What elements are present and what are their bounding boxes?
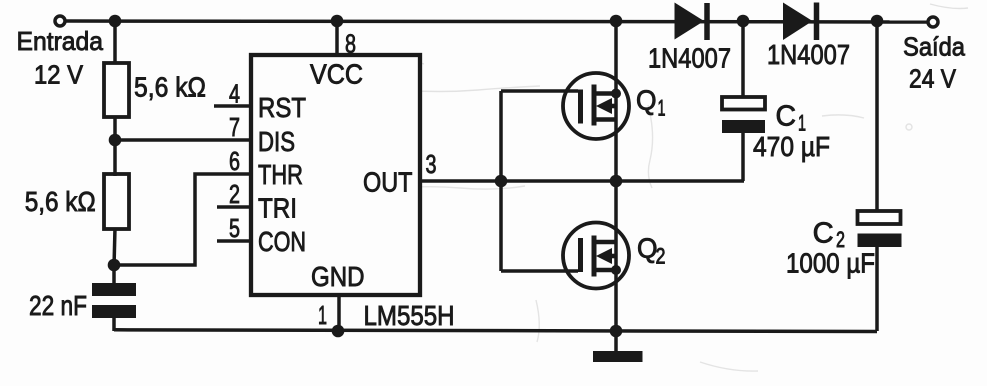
wire junction to pin 7 DIS <box>115 138 251 142</box>
junction between diodes / C1 <box>737 15 750 28</box>
pin 1 stub <box>337 295 341 332</box>
svg-text:24 V: 24 V <box>909 64 957 94</box>
svg-text:12 V: 12 V <box>34 59 84 89</box>
wire top rail <box>67 21 927 22</box>
svg-text:RST: RST <box>258 92 306 123</box>
svg-text:Q: Q <box>637 233 658 264</box>
svg-text:5,6 kΩ: 5,6 kΩ <box>25 186 96 217</box>
junction OUT gate tee <box>495 175 508 188</box>
svg-text:1: 1 <box>658 96 666 121</box>
pin 5 CON stub <box>217 239 251 243</box>
svg-text:1N4007: 1N4007 <box>767 39 850 70</box>
svg-text:2: 2 <box>229 179 240 209</box>
ground <box>593 351 643 362</box>
svg-text:Saída: Saída <box>903 31 965 61</box>
junction R1/R2/pin7 <box>109 134 122 147</box>
svg-text:VCC: VCC <box>310 59 363 90</box>
wire gate bus vertical <box>499 91 503 271</box>
junction pin 8 on top rail <box>331 15 344 28</box>
junction R2/C3/pin6 <box>108 259 121 272</box>
svg-text:7: 7 <box>229 112 240 142</box>
junction at top of R1 <box>109 15 122 28</box>
wire junction to C1 <box>741 21 745 98</box>
junction bottom rail / ground <box>610 325 623 338</box>
diode D2 1N4007 <box>767 3 850 70</box>
svg-text:1N4007: 1N4007 <box>648 42 731 73</box>
wire R1 bottom to junction <box>113 116 117 142</box>
svg-text:GND: GND <box>311 261 365 292</box>
svg-text:DIS: DIS <box>258 126 295 157</box>
svg-text:LM555H: LM555H <box>364 300 455 331</box>
junction top rail / Q1 drain <box>610 15 623 28</box>
svg-text:6: 6 <box>229 146 240 176</box>
svg-text:1: 1 <box>318 300 327 330</box>
svg-text:Q: Q <box>636 85 657 116</box>
capacitor C1 470 uF <box>722 97 830 181</box>
pin 8 stub <box>335 21 339 55</box>
svg-text:4: 4 <box>229 79 240 109</box>
svg-text:22 nF: 22 nF <box>29 290 87 321</box>
op-amp U1 LM555H body <box>251 55 420 295</box>
svg-text:Entrada: Entrada <box>17 26 104 56</box>
wire R2 bottom to junction <box>114 228 115 267</box>
svg-text:5: 5 <box>229 213 240 243</box>
node output label Saida 24 V <box>903 31 965 93</box>
wire MOSFET drain-source vertical <box>614 21 618 353</box>
svg-text:TRI: TRI <box>258 193 297 224</box>
wire Q1 gate lead <box>501 89 578 93</box>
pin 2 TRI stub <box>217 205 251 209</box>
svg-text:8: 8 <box>345 29 356 59</box>
junction mid rail Q1/Q2/OUT <box>610 175 623 188</box>
pin 4 RST stub <box>214 104 251 108</box>
wire junction to pin 6 THR jog <box>114 174 251 265</box>
transistor Q2 <box>563 223 666 289</box>
node input label Entrada 12 V <box>17 26 104 90</box>
svg-text:470 µF: 470 µF <box>753 131 830 162</box>
svg-text:OUT: OUT <box>363 167 413 198</box>
junction pin 1 on bottom rail <box>332 325 345 338</box>
transistor Q1 <box>563 73 666 139</box>
svg-text:3: 3 <box>426 149 437 179</box>
diode D1 1N4007 <box>648 3 731 74</box>
svg-text:THR: THR <box>258 159 303 190</box>
wire (faint scan artifacts, decorative) <box>390 4 968 371</box>
svg-text:1000 µF: 1000 µF <box>786 248 875 279</box>
svg-text:C: C <box>813 218 834 250</box>
wire junction to R2 top <box>113 140 117 176</box>
svg-text:2: 2 <box>656 243 666 268</box>
capacitor C3 22 nF <box>29 265 136 331</box>
resistor R2 5,6 kOhm <box>25 174 129 229</box>
resistor R1 5,6 kOhm <box>104 63 206 117</box>
wire top rail to R1 <box>113 21 117 65</box>
wire pin 3 OUT to C1 bottom rail <box>420 179 744 183</box>
wire bottom rail <box>114 330 877 332</box>
svg-text:CON: CON <box>258 226 306 257</box>
svg-text:5,6 kΩ: 5,6 kΩ <box>134 72 206 103</box>
node Entrada input terminal <box>55 16 65 26</box>
wire Q2 gate lead <box>501 269 578 273</box>
junction after D2 / C2 <box>871 15 884 28</box>
svg-text:C: C <box>776 101 797 133</box>
capacitor C2 1000 uF <box>786 211 902 331</box>
wire junction to C2 <box>875 21 879 212</box>
node Saida output terminal <box>928 17 938 27</box>
